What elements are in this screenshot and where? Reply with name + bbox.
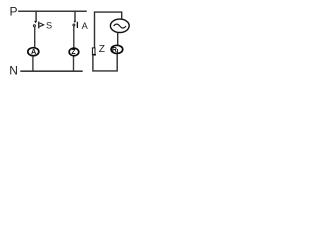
svg-text:N: N — [9, 63, 18, 77]
connector switch A — [73, 21, 78, 28]
wire right loop top L — [95, 12, 122, 48]
meter Z — [69, 48, 79, 56]
label A — [82, 21, 89, 31]
wire top bus from P — [18, 10, 87, 12]
wire branch1 bottom — [32, 56, 34, 71]
ammeter A — [28, 47, 39, 56]
svg-text:A: A — [31, 47, 37, 56]
wire branch1 top drop — [35, 10, 37, 21]
svg-text:A: A — [82, 21, 89, 31]
load RL — [111, 45, 123, 55]
wire branch1 mid — [34, 27, 36, 48]
svg-text:S: S — [46, 21, 52, 31]
switch S — [33, 21, 43, 29]
svg-text:Z: Z — [99, 44, 105, 55]
wire bottom bus from N — [20, 70, 82, 72]
terminal N — [9, 63, 18, 77]
wire branch2 mid — [73, 26, 75, 48]
label S — [46, 21, 52, 31]
wire RL to bottom U — [93, 54, 117, 71]
wire source to RL — [117, 33, 119, 47]
wire branch2 bottom — [73, 56, 75, 71]
label Z impedance — [99, 44, 105, 55]
wire branch2 top drop — [74, 10, 76, 21]
svg-text:P: P — [10, 4, 18, 18]
AC source — [110, 19, 129, 32]
terminal P — [10, 4, 18, 18]
impedance box Z — [92, 48, 96, 56]
